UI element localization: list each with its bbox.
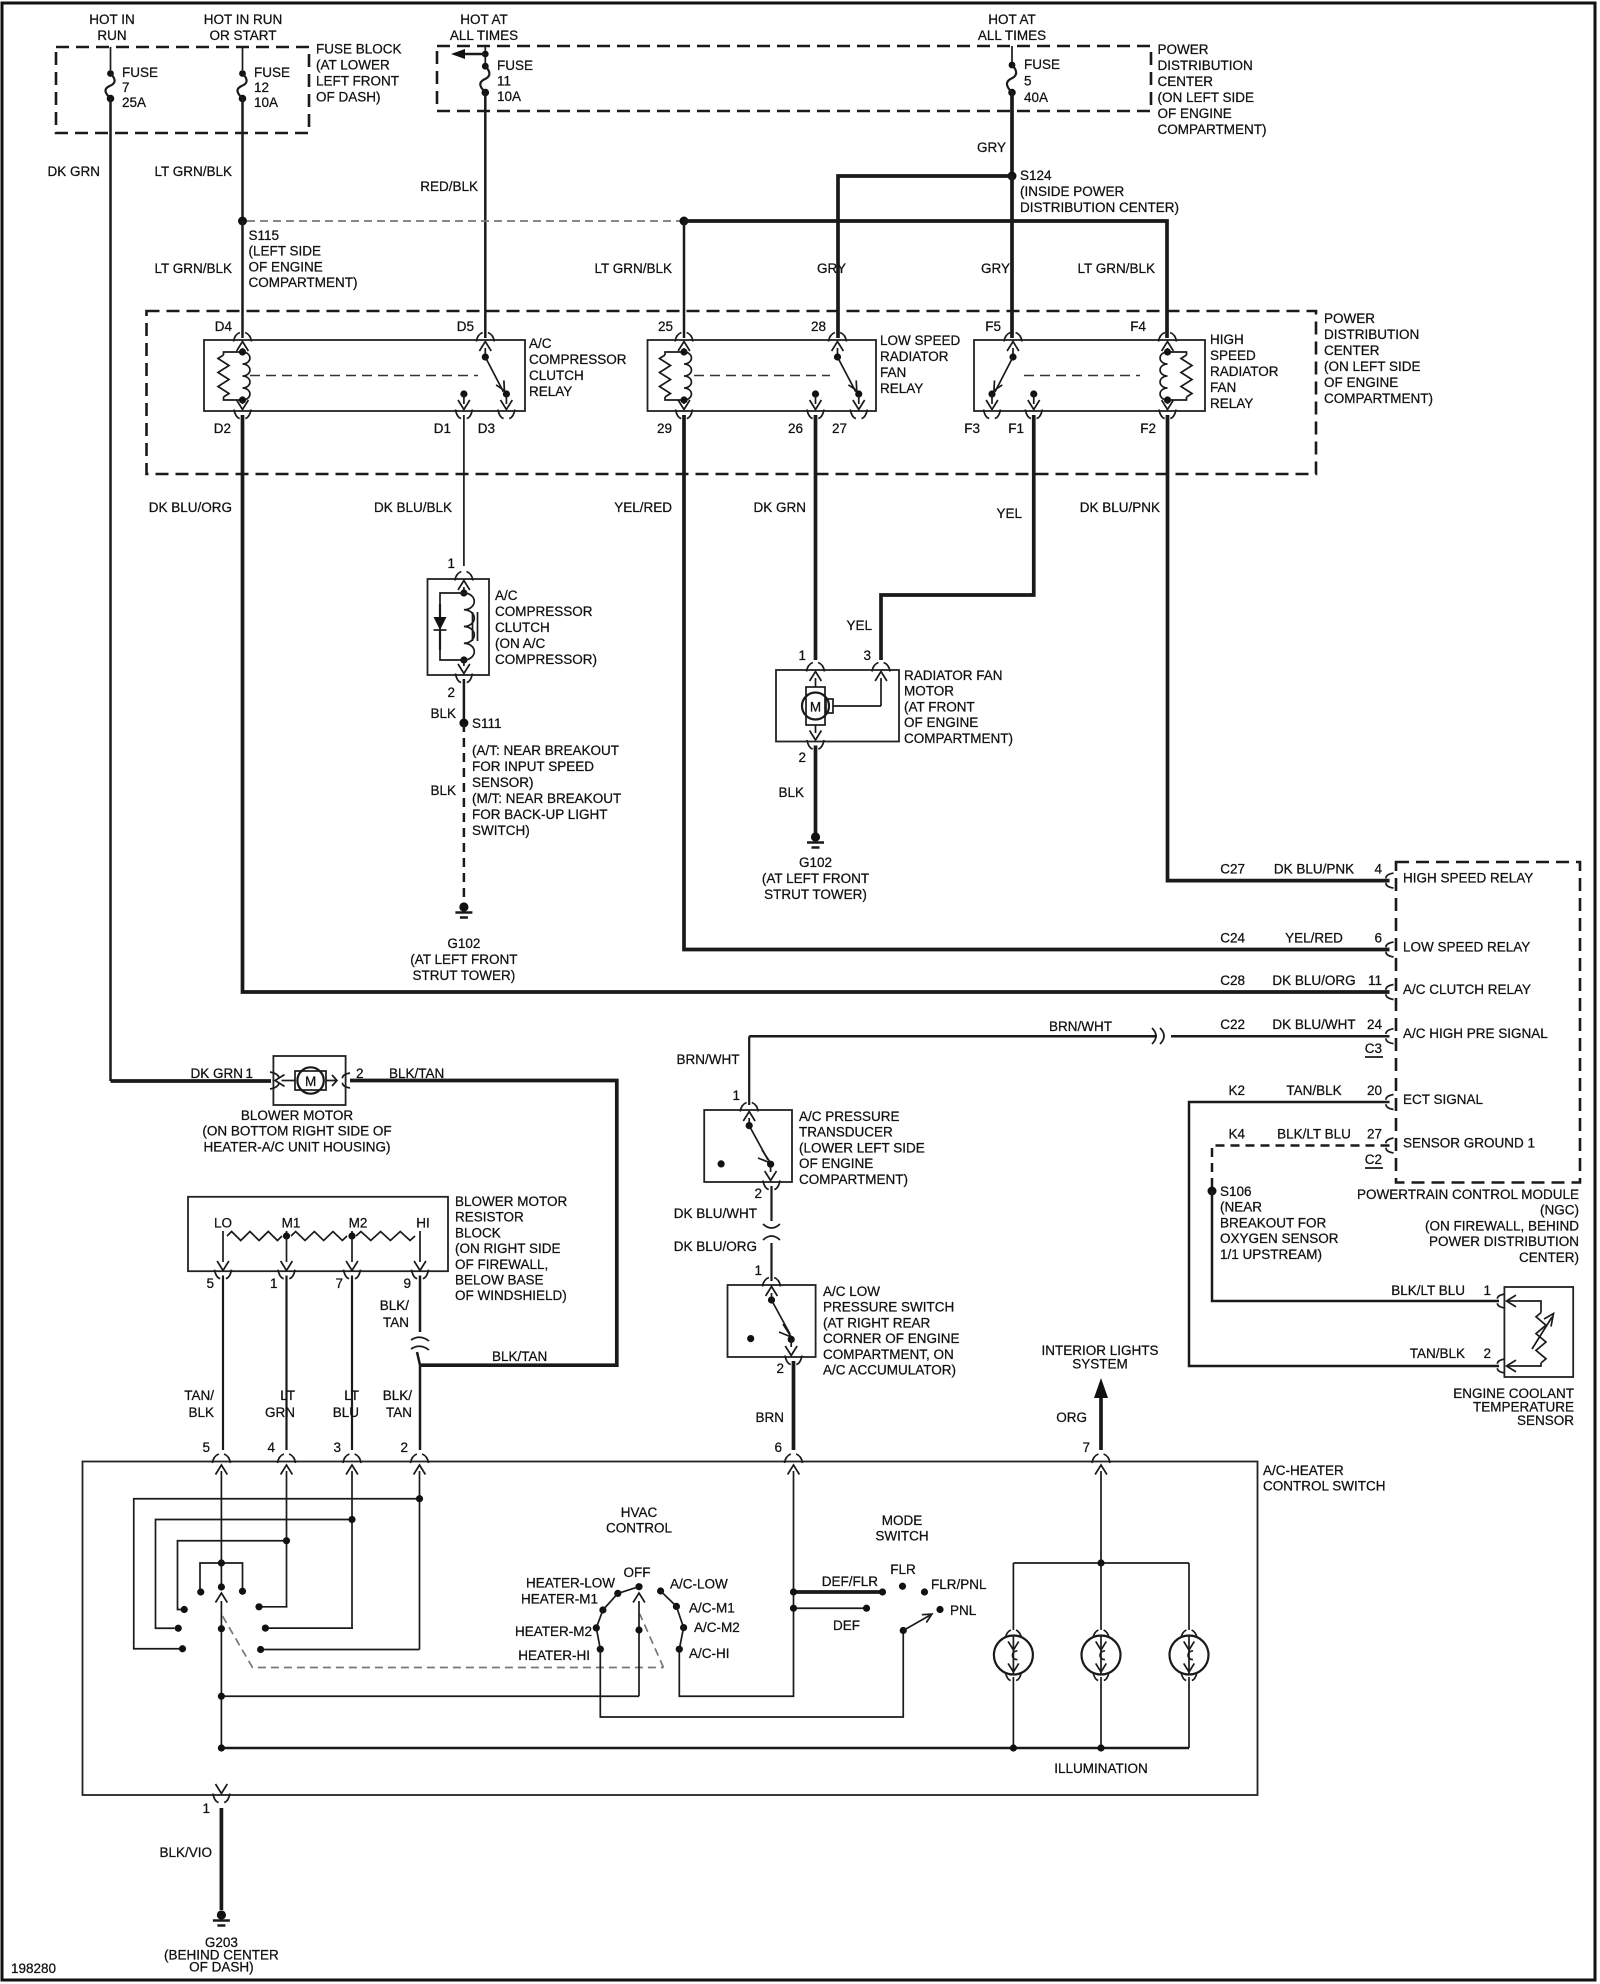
- label LT GRN/BLK (lower): [154, 261, 232, 276]
- label YEL/RED: [614, 500, 672, 515]
- svg-text:6: 6: [1374, 931, 1382, 946]
- splice S115: [238, 217, 247, 226]
- net HOT IN RUN OR START: [204, 12, 283, 43]
- relay: A/C compressor clutch relay: [204, 340, 525, 411]
- svg-text:OF ENGINE: OF ENGINE: [1324, 375, 1398, 390]
- svg-text:20: 20: [1367, 1083, 1382, 1098]
- wire LT GRN/BLK junction to pin25: [683, 221, 686, 338]
- wire YEL F1 to fan pin3: [881, 415, 1034, 660]
- PCM pin 27 connector: [1367, 1127, 1394, 1154]
- label DK GRN (blower): [190, 1066, 243, 1081]
- label A/C-HI: [689, 1646, 730, 1661]
- svg-text:FLR: FLR: [890, 1562, 916, 1577]
- relay: high speed radiator fan relay: [974, 340, 1205, 411]
- label A/C-HEATER CONTROL SWITCH: [1263, 1463, 1386, 1494]
- lamp 1 (illumination): [994, 1563, 1033, 1748]
- svg-text:COMPARTMENT): COMPARTMENT): [904, 731, 1013, 746]
- connector pin F5: [985, 319, 1022, 342]
- svg-text:DK BLU/PNK: DK BLU/PNK: [1274, 862, 1354, 877]
- svg-text:FUSE BLOCK: FUSE BLOCK: [316, 42, 402, 57]
- component: A/C low pressure switch: [728, 1285, 816, 1357]
- connector ECT pin 1: [1497, 1294, 1504, 1308]
- svg-text:4: 4: [1374, 862, 1382, 877]
- label FUSE 5 40A: [1024, 57, 1060, 105]
- svg-text:A/C LOW: A/C LOW: [823, 1284, 880, 1299]
- svg-text:12: 12: [254, 80, 269, 95]
- svg-text:BLK: BLK: [188, 1405, 214, 1420]
- svg-text:HI: HI: [416, 1215, 430, 1230]
- label BLK/ TAN (pin9): [380, 1298, 410, 1330]
- label POWER DISTRIBUTION CENTER (top): [1158, 42, 1267, 137]
- label FLR: [890, 1562, 916, 1577]
- svg-text:GRY: GRY: [977, 140, 1006, 155]
- connector resistor block pin 1: [270, 1270, 295, 1291]
- label POWER DISTRIBUTION CENTER (relays): [1324, 311, 1433, 406]
- wire GRY S124 to pin28: [838, 176, 1012, 338]
- connector fan pin 2: [798, 740, 824, 765]
- svg-text:A/C-M1: A/C-M1: [689, 1601, 735, 1616]
- svg-text:SWITCH): SWITCH): [472, 823, 530, 838]
- svg-text:5: 5: [202, 1440, 210, 1455]
- label C28 DK BLU/ORG: [1220, 973, 1355, 988]
- connector pin F2: [1140, 410, 1176, 437]
- wire BLK/TAN blower to junction: [350, 1081, 617, 1366]
- wire DK GRN fuse7 to blower: [111, 99, 272, 1082]
- svg-text:BLK: BLK: [778, 785, 804, 800]
- svg-text:25A: 25A: [122, 95, 146, 110]
- svg-text:HIGH SPEED RELAY: HIGH SPEED RELAY: [1403, 871, 1533, 886]
- svg-text:ECT SIGNAL: ECT SIGNAL: [1403, 1092, 1484, 1107]
- svg-text:M2: M2: [349, 1215, 368, 1230]
- label ECT pin 2: [1483, 1346, 1491, 1361]
- svg-text:S124: S124: [1020, 168, 1052, 183]
- connector resistor block pin 5: [206, 1270, 231, 1291]
- svg-text:FOR INPUT SPEED: FOR INPUT SPEED: [472, 759, 594, 774]
- label PNL: [950, 1603, 977, 1618]
- label DK GRN (top): [47, 164, 100, 179]
- svg-text:F1: F1: [1008, 421, 1024, 436]
- svg-text:HEATER-M1: HEATER-M1: [521, 1592, 598, 1607]
- svg-text:5: 5: [206, 1276, 214, 1291]
- svg-text:HEATER-A/C UNIT HOUSING): HEATER-A/C UNIT HOUSING): [203, 1139, 390, 1154]
- svg-text:(AT LOWER: (AT LOWER: [316, 58, 390, 73]
- connector low pressure switch pin 2: [776, 1356, 802, 1377]
- label G102 (clutch): [410, 936, 517, 983]
- svg-text:(ON LEFT SIDE: (ON LEFT SIDE: [1158, 90, 1255, 105]
- fuse F5: [1007, 62, 1016, 97]
- svg-text:A/C ACCUMULATOR): A/C ACCUMULATOR): [823, 1363, 956, 1378]
- wire fuse11 top stub: [484, 46, 486, 54]
- wire pin6 stem: [793, 1480, 795, 1612]
- svg-text:BREAKOUT FOR: BREAKOUT FOR: [1220, 1215, 1327, 1230]
- label A/C-M1: [689, 1601, 735, 1616]
- wire BRN/WHT transducer to PCM C22: [749, 1035, 1389, 1038]
- label S111 location: [472, 743, 621, 838]
- svg-text:A/C PRESSURE: A/C PRESSURE: [799, 1109, 900, 1124]
- label 198280: [11, 1961, 56, 1976]
- connector blower pin 2: [342, 1066, 363, 1088]
- svg-text:LOW SPEED RELAY: LOW SPEED RELAY: [1403, 940, 1530, 955]
- label DK BLU/ORG (transducer): [674, 1239, 757, 1254]
- label LT GRN/BLK (pin25): [594, 261, 672, 276]
- svg-text:LEFT FRONT: LEFT FRONT: [316, 74, 399, 89]
- svg-text:FUSE: FUSE: [1024, 57, 1060, 72]
- svg-text:TAN/: TAN/: [184, 1388, 214, 1403]
- label C22 DK BLU/WHT: [1220, 1017, 1355, 1032]
- svg-text:27: 27: [1367, 1127, 1382, 1142]
- svg-text:2: 2: [754, 1186, 762, 1201]
- svg-text:CONTROL: CONTROL: [606, 1521, 672, 1536]
- connector pin D1: [434, 410, 473, 437]
- svg-text:3: 3: [863, 648, 871, 663]
- svg-text:A/C-HI: A/C-HI: [689, 1646, 730, 1661]
- svg-text:FLR/PNL: FLR/PNL: [931, 1577, 987, 1592]
- svg-text:C22: C22: [1220, 1017, 1245, 1032]
- svg-text:OFF: OFF: [624, 1565, 651, 1580]
- svg-text:2: 2: [447, 685, 455, 700]
- svg-text:YEL: YEL: [846, 618, 872, 633]
- PCM signal label HIGH SPEED RELAY: [1403, 871, 1533, 886]
- svg-text:A/C: A/C: [529, 336, 552, 351]
- svg-text:OF WINDSHIELD): OF WINDSHIELD): [455, 1288, 567, 1303]
- label G102 (fan): [762, 855, 869, 902]
- label YEL (fan): [846, 618, 872, 633]
- svg-text:FOR BACK-UP LIGHT: FOR BACK-UP LIGHT: [472, 807, 608, 822]
- label BLK/VIO: [159, 1845, 212, 1860]
- label TAN/BLK (ECT): [1410, 1346, 1465, 1361]
- label DK GRN (fan): [753, 500, 806, 515]
- svg-text:LT: LT: [344, 1388, 359, 1403]
- label BLOWER MOTOR RESISTOR BLOCK: [455, 1194, 568, 1303]
- svg-text:2: 2: [1483, 1346, 1491, 1361]
- label HEATER-M1: [521, 1592, 598, 1607]
- label ILLUMINATION: [1054, 1761, 1148, 1776]
- label BRN/WHT (left): [677, 1052, 740, 1067]
- label FUSE 7 25A: [122, 65, 158, 110]
- svg-text:COMPARTMENT): COMPARTMENT): [799, 1172, 908, 1187]
- svg-text:MOTOR: MOTOR: [904, 684, 954, 699]
- svg-text:(NEAR: (NEAR: [1220, 1200, 1262, 1215]
- svg-text:D4: D4: [215, 319, 233, 334]
- svg-text:LT GRN/BLK: LT GRN/BLK: [1077, 261, 1155, 276]
- svg-text:LO: LO: [214, 1215, 232, 1230]
- wire BRN/WHT transducer up: [748, 1036, 750, 1105]
- wire DEF feed: [790, 1605, 870, 1612]
- svg-text:BLK/TAN: BLK/TAN: [492, 1349, 547, 1364]
- svg-text:DK BLU/BLK: DK BLU/BLK: [374, 500, 452, 515]
- svg-text:(LOWER LEFT SIDE: (LOWER LEFT SIDE: [799, 1140, 925, 1155]
- svg-text:3: 3: [333, 1440, 341, 1455]
- svg-text:DK GRN: DK GRN: [47, 164, 100, 179]
- wire LT GRN pin1 to switch: [285, 1276, 287, 1451]
- svg-text:GRN: GRN: [265, 1405, 295, 1420]
- connector fan pin 1: [798, 648, 824, 672]
- svg-text:OF FIREWALL,: OF FIREWALL,: [455, 1257, 548, 1272]
- splice S106: [1208, 1187, 1217, 1196]
- fuse F7: [105, 70, 114, 102]
- connector blower pin 1: [245, 1066, 279, 1089]
- mechanical link (dashed): [223, 1614, 664, 1668]
- svg-text:BLOWER MOTOR: BLOWER MOTOR: [241, 1108, 354, 1123]
- svg-text:HEATER-LOW: HEATER-LOW: [526, 1576, 615, 1591]
- wire HEATER-HI to mode switch: [600, 1632, 903, 1717]
- label LT GRN/BLK (upper): [154, 164, 232, 179]
- svg-text:SPEED: SPEED: [1210, 348, 1256, 363]
- connector pin D4: [215, 319, 252, 342]
- svg-text:OF ENGINE: OF ENGINE: [904, 715, 978, 730]
- svg-text:G102: G102: [799, 855, 832, 870]
- svg-text:7: 7: [122, 80, 130, 95]
- svg-text:HIGH: HIGH: [1210, 332, 1244, 347]
- connector fan pin 3: [863, 648, 890, 672]
- connector ECT pin 2: [1497, 1359, 1504, 1373]
- svg-text:G102: G102: [447, 936, 480, 951]
- wire BLK/TAN pin9 lower: [417, 1352, 420, 1450]
- svg-text:A/C: A/C: [495, 588, 518, 603]
- connector control switch pin 2: [400, 1440, 428, 1480]
- svg-text:M: M: [810, 700, 821, 715]
- label RED/BLK: [420, 179, 478, 194]
- svg-text:DISTRIBUTION: DISTRIBUTION: [1324, 327, 1419, 342]
- svg-text:OF DASH): OF DASH): [316, 90, 381, 105]
- svg-text:26: 26: [788, 421, 803, 436]
- svg-text:HOT IN: HOT IN: [89, 12, 135, 27]
- label BRN: [755, 1410, 784, 1425]
- svg-text:YEL: YEL: [996, 506, 1022, 521]
- fuse block (dashed box): [56, 47, 309, 133]
- svg-text:D5: D5: [457, 319, 474, 334]
- svg-text:HOT AT: HOT AT: [460, 12, 508, 27]
- svg-text:OF ENGINE: OF ENGINE: [1158, 106, 1232, 121]
- component: blower motor: [273, 1056, 345, 1105]
- svg-text:(A/T: NEAR BREAKOUT: (A/T: NEAR BREAKOUT: [472, 743, 619, 758]
- wire BLK/VIO to G203: [220, 1808, 224, 1910]
- svg-text:LT GRN/BLK: LT GRN/BLK: [154, 164, 232, 179]
- wire pin7 stem: [1100, 1480, 1102, 1563]
- svg-text:(ON LEFT SIDE: (ON LEFT SIDE: [1324, 359, 1421, 374]
- svg-text:10A: 10A: [254, 95, 278, 110]
- label DEF/FLR: [822, 1574, 879, 1589]
- label HEATER-HI: [518, 1648, 590, 1663]
- PCM signal label SENSOR GROUND 1: [1403, 1136, 1535, 1151]
- svg-text:7: 7: [335, 1276, 343, 1291]
- PCM signal label A/C CLUTCH RELAY: [1403, 982, 1531, 997]
- splice S111: [459, 719, 468, 728]
- label S115: [249, 228, 358, 290]
- svg-text:CLUTCH: CLUTCH: [529, 368, 584, 383]
- label BLK/LT BLU (ECT): [1391, 1283, 1465, 1298]
- wire LT GRN/BLK S115 to D4: [241, 221, 244, 338]
- connector control switch pin 4: [267, 1440, 295, 1480]
- wire LT BLU pin7 to switch: [351, 1276, 353, 1451]
- wire BLK clutch to S111: [463, 679, 466, 723]
- svg-text:DK BLU/WHT: DK BLU/WHT: [1272, 1017, 1355, 1032]
- svg-text:FUSE: FUSE: [497, 58, 533, 73]
- net HOT AT ALL TIMES (fuse 5): [978, 12, 1046, 43]
- wire LT GRN/BLK junction to F4: [684, 221, 1167, 338]
- svg-text:S115: S115: [249, 228, 280, 243]
- label MODE SWITCH: [875, 1513, 928, 1544]
- svg-text:28: 28: [811, 319, 826, 334]
- svg-text:FUSE: FUSE: [122, 65, 158, 80]
- connector pin 27: [832, 410, 867, 437]
- svg-text:COMPRESSOR): COMPRESSOR): [495, 652, 597, 667]
- svg-text:198280: 198280: [11, 1961, 56, 1976]
- svg-text:A/C-HEATER: A/C-HEATER: [1263, 1463, 1344, 1478]
- svg-text:COMPARTMENT): COMPARTMENT): [1324, 391, 1433, 406]
- svg-text:1/1 UPSTREAM): 1/1 UPSTREAM): [1220, 1247, 1322, 1262]
- connector pin 28: [811, 319, 847, 342]
- PCM pin 20 connector: [1367, 1083, 1394, 1110]
- label A/C COMPRESSOR CLUTCH: [495, 588, 597, 667]
- junction dots illumination: [1010, 1744, 1105, 1751]
- connector control switch pin 7: [1082, 1440, 1110, 1480]
- label BLOWER MOTOR: [202, 1108, 391, 1154]
- connector pin F4: [1130, 319, 1176, 342]
- connector pin 26: [788, 410, 824, 437]
- wire A/C-HI to pin6: [679, 1612, 793, 1696]
- relay: low speed radiator fan relay: [648, 340, 877, 411]
- svg-text:TAN/BLK: TAN/BLK: [1410, 1346, 1465, 1361]
- svg-text:RELAY: RELAY: [880, 381, 923, 396]
- connector clutch pin 2: [447, 674, 472, 701]
- svg-text:C27: C27: [1220, 862, 1245, 877]
- svg-text:D2: D2: [214, 421, 231, 436]
- wire illumination top rail: [1013, 1559, 1189, 1566]
- power distribution center top (dashed box): [437, 46, 1151, 111]
- svg-text:40A: 40A: [1024, 90, 1048, 105]
- connector resistor block pin 7: [335, 1270, 360, 1291]
- wire DK BLU/PNK F2 to PCM C27: [1168, 415, 1390, 881]
- component: radiator fan motor: [776, 670, 899, 742]
- label BLK/TAN (mid): [492, 1349, 547, 1364]
- svg-text:(ON A/C: (ON A/C: [495, 636, 546, 651]
- svg-text:LT: LT: [280, 1388, 295, 1403]
- connector control switch pin 5: [202, 1440, 230, 1480]
- connector pin F1: [1008, 410, 1042, 437]
- wire DK BLU/BLK D1 to clutch: [463, 415, 465, 566]
- svg-text:24: 24: [1367, 1017, 1383, 1032]
- svg-text:PRESSURE SWITCH: PRESSURE SWITCH: [823, 1300, 954, 1315]
- svg-text:(AT RIGHT REAR: (AT RIGHT REAR: [823, 1315, 931, 1330]
- svg-text:(M/T: NEAR BREAKOUT: (M/T: NEAR BREAKOUT: [472, 791, 621, 806]
- svg-text:SWITCH: SWITCH: [875, 1529, 928, 1544]
- svg-text:6: 6: [774, 1440, 782, 1455]
- svg-text:SENSOR GROUND 1: SENSOR GROUND 1: [1403, 1136, 1535, 1151]
- svg-text:5: 5: [1024, 74, 1032, 89]
- svg-text:RUN: RUN: [97, 28, 126, 43]
- svg-text:(AT FRONT: (AT FRONT: [904, 699, 975, 714]
- svg-text:DISTRIBUTION: DISTRIBUTION: [1158, 58, 1253, 73]
- svg-text:OF ENGINE: OF ENGINE: [249, 259, 323, 274]
- svg-text:DK GRN: DK GRN: [190, 1066, 243, 1081]
- label RADIATOR FAN MOTOR: [904, 668, 1013, 746]
- net HOT AT ALL TIMES (fuse 11): [450, 12, 518, 43]
- label HEATER-LOW: [526, 1576, 615, 1591]
- svg-text:(NGC): (NGC): [1540, 1203, 1579, 1218]
- connector transducer pin 1: [732, 1088, 758, 1112]
- svg-text:F4: F4: [1130, 319, 1146, 334]
- label K2 TAN/BLK: [1228, 1083, 1341, 1098]
- svg-text:BELOW BASE: BELOW BASE: [455, 1273, 544, 1288]
- label DK BLU/WHT: [674, 1206, 757, 1221]
- wire LT GRN/BLK fuse12 to S115: [241, 99, 244, 222]
- svg-text:RADIATOR: RADIATOR: [1210, 364, 1279, 379]
- label A/C PRESSURE TRANSDUCER: [799, 1109, 925, 1187]
- svg-text:POWER: POWER: [1324, 311, 1375, 326]
- label HEATER-M2: [515, 1624, 592, 1639]
- svg-text:STRUT TOWER): STRUT TOWER): [764, 887, 867, 902]
- svg-text:BLK/VIO: BLK/VIO: [159, 1845, 212, 1860]
- svg-text:F2: F2: [1140, 421, 1156, 436]
- wire DK BLU/ORG: [770, 1243, 772, 1281]
- svg-text:11: 11: [497, 74, 511, 89]
- label BLK/ TAN (lower): [383, 1388, 413, 1420]
- svg-text:A/C-M2: A/C-M2: [694, 1620, 740, 1635]
- label ECT pin 1: [1483, 1283, 1491, 1298]
- PCM signal label A/C HIGH PRE SIGNAL: [1403, 1026, 1548, 1041]
- wire BRN to switch pin6: [792, 1361, 796, 1450]
- svg-text:7: 7: [1082, 1440, 1090, 1455]
- component: A/C compressor clutch: [428, 579, 490, 675]
- svg-text:ILLUMINATION: ILLUMINATION: [1054, 1761, 1148, 1776]
- PCM pin 4 connector: [1374, 862, 1393, 889]
- label TAN/ BLK: [184, 1388, 214, 1420]
- label OFF: [624, 1565, 651, 1580]
- svg-text:DK BLU/ORG: DK BLU/ORG: [1272, 973, 1355, 988]
- svg-text:SENSOR): SENSOR): [472, 775, 534, 790]
- svg-text:(ON BOTTOM RIGHT SIDE OF: (ON BOTTOM RIGHT SIDE OF: [202, 1124, 391, 1139]
- PCM signal label ECT SIGNAL: [1403, 1092, 1484, 1107]
- svg-text:K2: K2: [1228, 1083, 1245, 1098]
- svg-text:S111: S111: [472, 716, 502, 731]
- label C2: [1365, 1152, 1383, 1168]
- svg-text:RESISTOR: RESISTOR: [455, 1210, 524, 1225]
- label FLR/PNL: [931, 1577, 987, 1592]
- svg-text:DK BLU/ORG: DK BLU/ORG: [149, 500, 232, 515]
- svg-text:RADIATOR: RADIATOR: [880, 349, 949, 364]
- label A/C-LOW: [670, 1577, 728, 1592]
- svg-text:CENTER: CENTER: [1324, 343, 1380, 358]
- svg-text:RED/BLK: RED/BLK: [420, 179, 478, 194]
- svg-text:(AT LEFT FRONT: (AT LEFT FRONT: [410, 952, 517, 967]
- svg-text:BLK/LT BLU: BLK/LT BLU: [1391, 1283, 1465, 1298]
- svg-text:1: 1: [447, 556, 455, 571]
- ground G102 (clutch): [455, 902, 472, 917]
- svg-text:27: 27: [832, 421, 847, 436]
- svg-text:(LEFT SIDE: (LEFT SIDE: [249, 244, 322, 259]
- svg-text:(ON FIREWALL, BEHIND: (ON FIREWALL, BEHIND: [1425, 1218, 1579, 1233]
- label DK BLU/BLK: [374, 500, 452, 515]
- label LT BLU: [333, 1388, 359, 1420]
- label LOW SPEED RADIATOR FAN RELAY: [880, 333, 961, 396]
- svg-text:LT GRN/BLK: LT GRN/BLK: [594, 261, 672, 276]
- svg-text:D3: D3: [478, 421, 495, 436]
- svg-text:OR START: OR START: [209, 28, 276, 43]
- svg-text:POWER: POWER: [1158, 42, 1209, 57]
- svg-text:ALL TIMES: ALL TIMES: [978, 28, 1046, 43]
- svg-text:BLK/: BLK/: [383, 1388, 413, 1403]
- svg-text:LT GRN/BLK: LT GRN/BLK: [154, 261, 232, 276]
- svg-text:25: 25: [658, 319, 673, 334]
- wire fuse5 top stub: [1011, 46, 1013, 65]
- wire ORG to interior lights: [1094, 1378, 1108, 1450]
- label YEL (F1): [996, 506, 1022, 521]
- svg-text:1: 1: [732, 1088, 740, 1103]
- wire fuse12 top stub: [242, 47, 244, 70]
- power distribution center (dashed box, relays): [147, 311, 1317, 474]
- wire selector common to pointer: [218, 1693, 639, 1700]
